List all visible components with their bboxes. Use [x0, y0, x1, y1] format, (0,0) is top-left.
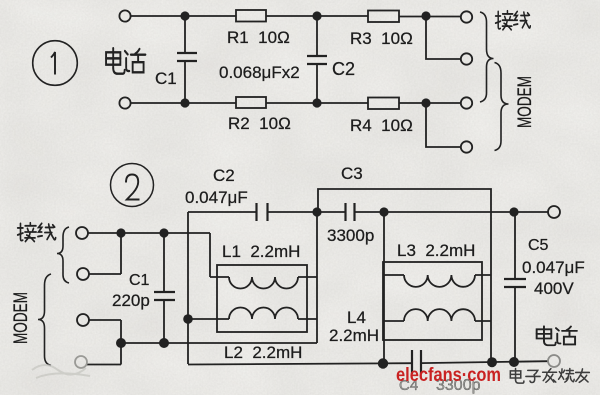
- svg-text:R3 10Ω: R3 10Ω: [350, 29, 413, 48]
- svg-text:elecfans·com: elecfans·com: [396, 365, 501, 386]
- svg-text:400V: 400V: [534, 279, 574, 298]
- svg-text:3300p: 3300p: [327, 226, 374, 245]
- svg-text:L1 2.2mH: L1 2.2mH: [222, 242, 300, 261]
- svg-text:L4: L4: [347, 308, 366, 327]
- svg-text:220p: 220p: [112, 291, 150, 310]
- svg-text:2.2mH: 2.2mH: [329, 326, 379, 345]
- svg-text:C2: C2: [213, 166, 235, 185]
- svg-text:L3 2.2mH: L3 2.2mH: [397, 241, 475, 260]
- svg-text:0.068μFx2: 0.068μFx2: [219, 63, 300, 82]
- svg-text:0.047μF: 0.047μF: [522, 258, 585, 277]
- svg-text:MODEM: MODEM: [10, 292, 32, 344]
- svg-text:L2 2.2mH: L2 2.2mH: [224, 343, 302, 362]
- svg-text:C1: C1: [155, 69, 177, 88]
- svg-text:C1: C1: [129, 272, 150, 289]
- svg-text:C2: C2: [332, 59, 355, 79]
- svg-text:0.047μF: 0.047μF: [185, 188, 248, 207]
- svg-text:R4 10Ω: R4 10Ω: [350, 116, 413, 135]
- svg-text:C3: C3: [341, 164, 363, 183]
- svg-text:R1 10Ω: R1 10Ω: [227, 28, 290, 47]
- svg-text:MODEM: MODEM: [514, 76, 536, 128]
- svg-text:R2 10Ω: R2 10Ω: [228, 114, 291, 133]
- svg-text:C5: C5: [528, 237, 549, 254]
